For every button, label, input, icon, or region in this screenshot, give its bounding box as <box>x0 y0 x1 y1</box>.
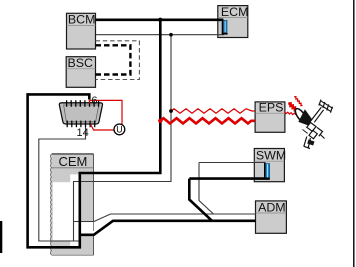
svg-text:CEM: CEM <box>59 154 88 169</box>
svg-text:BSC: BSC <box>68 56 94 70</box>
svg-text:SWM: SWM <box>256 148 286 162</box>
svg-text:ADM: ADM <box>258 201 286 215</box>
svg-text:EPS: EPS <box>259 101 284 115</box>
svg-text:U: U <box>116 125 122 135</box>
svg-text:ECM: ECM <box>221 5 249 19</box>
svg-text:14: 14 <box>77 127 89 139</box>
svg-text:BCM: BCM <box>68 13 96 27</box>
svg-text:6: 6 <box>91 95 97 107</box>
